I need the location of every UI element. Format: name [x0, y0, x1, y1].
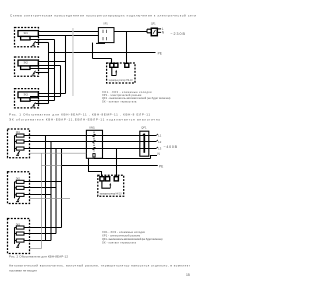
svg-text:ЭК2: ЭК2: [24, 63, 29, 65]
svg-text:SК - контакт термостата: SК - контакт термостата: [102, 100, 137, 104]
svg-text:КМ1: КМ1: [90, 126, 96, 130]
svg-text:ХР1: ХР1: [103, 24, 108, 26]
svg-text:ЭК обогревателя КВН-ЕВАР-11,ЕВ: ЭК обогревателя КВН-ЕВАР-11,ЕВЛН-ЕВЛР-11…: [9, 118, 160, 122]
svg-text:Рис. 2 Обогреватели для КВН-8Е: Рис. 2 Обогреватели для КВН-8ЕАР-12: [9, 255, 68, 259]
svg-text:ЭК3: ЭК3: [24, 95, 29, 97]
svg-text:L1: L1: [158, 133, 162, 137]
svg-text:ЭК2: ЭК2: [16, 178, 21, 180]
svg-text:ЭК1: ЭК1: [24, 33, 29, 35]
svg-text:ЭК1: ЭК1: [16, 132, 21, 134]
svg-text:15: 15: [186, 273, 190, 277]
svg-text:QF1 - выключатель автоматическ: QF1 - выключатель автоматический (не буд…: [102, 237, 163, 241]
svg-text:PE: PE: [158, 51, 162, 55]
svg-text:QF1: QF1: [151, 24, 156, 26]
svg-text:Рис. 1 Обогреватели для КВН-8Е: Рис. 1 Обогреватели для КВН-8ЕАР-11 , КВ…: [9, 112, 150, 116]
svg-text:поставки не входят: поставки не входят: [9, 268, 38, 272]
svg-text:L2: L2: [158, 140, 162, 144]
svg-text:ХР1 - электрический разъем: ХР1 - электрический разъем: [102, 233, 140, 237]
svg-text:~400В: ~400В: [164, 145, 178, 149]
svg-text:QF1 - выключатель автоматическ: QF1 - выключатель автоматический (не буд…: [102, 96, 171, 100]
svg-text:терморегулятор НК-10: терморегулятор НК-10: [109, 80, 134, 82]
svg-text:SК - контакт термостата: SК - контакт термостата: [102, 240, 137, 244]
svg-text:ЭК3: ЭК3: [16, 225, 21, 227]
svg-text:Автоматический выключатель, ви: Автоматический выключатель, вилочный раз…: [9, 264, 191, 268]
svg-text:PE: PE: [159, 164, 163, 168]
svg-text:~230В: ~230В: [170, 32, 185, 36]
svg-text:QF1: QF1: [141, 126, 147, 130]
svg-text:терморегулятор НК-10: терморегулятор НК-10: [100, 193, 123, 195]
svg-text:L3: L3: [158, 146, 162, 150]
svg-text:Схема электрическая присоедине: Схема электрическая присоединения пускор…: [10, 14, 196, 18]
